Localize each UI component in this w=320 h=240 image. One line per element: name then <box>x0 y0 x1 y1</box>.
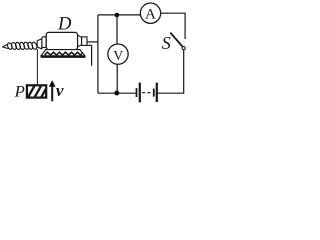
switch S pivot contact <box>182 47 185 50</box>
drill chuck <box>37 39 42 49</box>
battery cell 2 short plate <box>153 89 155 97</box>
wire: voltmeter bottom lead <box>116 64 118 93</box>
switch S blade <box>170 33 182 47</box>
wire: left bus vertical <box>97 15 99 93</box>
string from drill to weight <box>36 49 38 84</box>
svg-text:A: A <box>145 6 156 22</box>
svg-text:V: V <box>113 48 123 63</box>
drill bit coil <box>7 41 38 50</box>
battery cell 2 long plate <box>156 83 158 102</box>
wire: bottom wire from left bus to battery <box>98 92 136 94</box>
svg-text:P: P <box>14 84 25 101</box>
ammeter A <box>140 3 160 23</box>
svg-text:S: S <box>162 33 171 53</box>
motor D <box>42 32 87 49</box>
velocity arrow <box>49 80 56 101</box>
wire: voltmeter top lead <box>116 15 118 44</box>
voltmeter V <box>108 44 128 64</box>
node: top junction (voltmeter tap) <box>115 13 120 18</box>
motor base stand <box>41 50 86 57</box>
drill bit tip <box>2 44 8 49</box>
battery inter-cell dashed link <box>142 92 151 94</box>
wire: motor terminal to left bus <box>87 41 98 43</box>
weight block P <box>27 85 46 97</box>
wire: top wire from left bus to ammeter <box>98 14 140 16</box>
svg-text:v: v <box>56 81 64 100</box>
battery cell 1 long plate <box>139 83 141 103</box>
battery cell 1 short plate <box>136 88 138 97</box>
node: bottom junction (voltmeter tap) <box>114 91 119 96</box>
wire: motor lower lead stub <box>87 45 92 66</box>
wire: ammeter to top-right corner down to switch <box>161 13 185 39</box>
wire: switch down to bottom-right corner then to battery <box>158 50 184 93</box>
svg-text:D: D <box>57 14 72 34</box>
